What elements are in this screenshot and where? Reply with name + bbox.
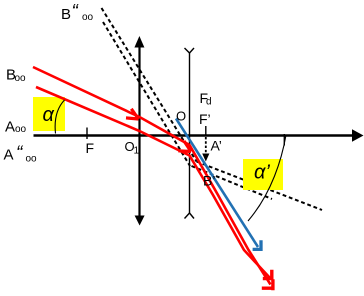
wire dashed virtual ray D2 (103, 22, 190, 166)
node axis arrowhead (352, 129, 364, 141)
svg-text:A: A (5, 119, 15, 136)
svg-text:A: A (4, 147, 14, 164)
svg-text:oo: oo (15, 124, 27, 135)
node red ray2 end arrowhead (263, 270, 273, 281)
wire blue ray through O (176, 119, 258, 248)
node red ray1 end arrowhead (262, 279, 274, 290)
svg-text:oo: oo (26, 154, 38, 165)
svg-text:B’: B’ (203, 173, 215, 189)
svg-text:A’: A’ (211, 138, 222, 154)
wire dashed virtual ray D1 (from B''oo) (102, 8, 197, 162)
svg-text:d: d (206, 97, 212, 108)
wire dashed virtual ray L (continuation right lower) (192, 166, 273, 199)
node red ray2 mid arrowhead (178, 141, 191, 152)
node tick F (86, 128, 88, 140)
node dotted image arrow at F' (205, 137, 207, 154)
node alpha highlight box (33, 97, 65, 131)
svg-text:oo: oo (82, 12, 94, 23)
wire red ray 1 (from Boo) (33, 67, 271, 285)
lens L2 diverging (vertical line with inward arrows) (189, 53, 191, 213)
svg-text:F’: F’ (199, 111, 211, 127)
node tick unlabeled (283, 134, 285, 146)
svg-text:oo: oo (15, 73, 27, 84)
node red ray1 mid arrowhead (126, 109, 139, 119)
svg-text:α’: α’ (254, 162, 270, 184)
node alpha-prime highlight box (243, 159, 283, 190)
svg-text:1: 1 (134, 146, 140, 157)
svg-text:α: α (43, 104, 55, 126)
wire dashed virtual ray P (continuation right) (197, 162, 323, 211)
wire optical axis (34, 134, 354, 136)
node angle arc alpha (55, 100, 64, 134)
node tick F-prime (205, 126, 207, 137)
node angle arc alpha-prime (248, 135, 286, 221)
svg-text:F: F (86, 140, 95, 156)
lens L1 converging (vertical double arrow) (138, 44, 140, 218)
svg-text:B: B (61, 6, 71, 23)
svg-text:O: O (176, 109, 186, 124)
wire red ray 2 (from Aoo) (36, 87, 270, 278)
node blue arrowhead (253, 240, 262, 251)
